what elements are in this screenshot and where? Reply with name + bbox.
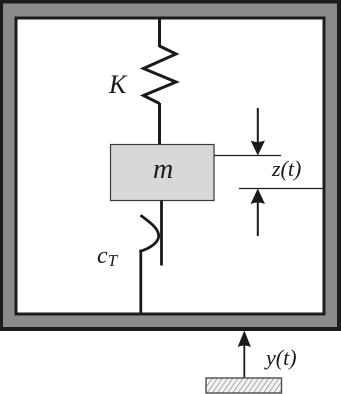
wire from spring to mass — [158, 103, 161, 145]
svg-text:K: K — [108, 70, 128, 99]
svg-text:m: m — [153, 154, 173, 185]
mass m — [111, 145, 215, 201]
wire from mass to damper — [160, 201, 163, 266]
lower measurement line — [239, 188, 323, 190]
wire from damper to bottom wall — [139, 251, 142, 315]
down arrow stem — [257, 108, 259, 142]
base up arrowhead — [238, 331, 251, 348]
down arrowhead — [251, 141, 265, 156]
up arrowhead — [251, 189, 265, 205]
upper measurement line — [214, 155, 281, 157]
svg-text:y(t): y(t) — [264, 345, 297, 370]
spring K — [144, 46, 177, 104]
frame interior — [18, 20, 323, 313]
wire from top wall to spring — [158, 19, 161, 47]
base arrow stem — [243, 345, 245, 378]
damper cT curve — [139, 215, 158, 251]
up arrow stem — [257, 203, 259, 237]
base hatched block — [206, 378, 282, 393]
frame inner black border — [15, 17, 326, 316]
svg-text:z(t): z(t) — [271, 156, 301, 181]
